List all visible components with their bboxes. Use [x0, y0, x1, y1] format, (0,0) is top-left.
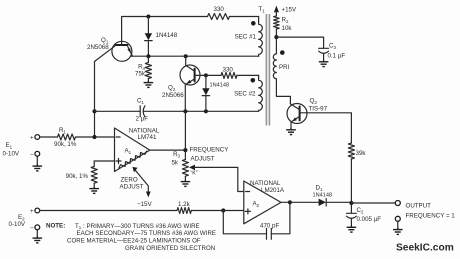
resistor 90k 1% (to ground) [66, 167, 98, 188]
wire A1 + input [94, 161, 114, 167]
svg-text:470 pF: 470 pF [260, 223, 279, 230]
svg-text:90k, 1%: 90k, 1% [66, 173, 89, 180]
op-amp A2 LM201A [244, 180, 285, 224]
svg-text:SeekIC.com: SeekIC.com [396, 243, 454, 254]
resistor 330 (secondary 1) [208, 6, 230, 20]
resistor 39k [348, 143, 366, 203]
resistor 330 (secondary 2) [206, 67, 259, 79]
svg-text:0-10V: 0-10V [9, 221, 26, 228]
svg-text:+15V: +15V [282, 7, 297, 14]
svg-text:−: − [30, 225, 34, 232]
svg-text:LM201A: LM201A [261, 187, 285, 194]
svg-text:2N5068: 2N5068 [87, 44, 109, 51]
svg-text:330: 330 [223, 67, 234, 74]
note text [46, 223, 216, 252]
svg-text:“K”: “K” [191, 171, 198, 177]
node R2/PRI junction [274, 35, 278, 39]
phase dot SEC1 [251, 21, 256, 26]
node A1 inverting input [92, 135, 96, 139]
node Q2 emitter on rail [183, 109, 187, 113]
diode D1 1N4148 [313, 185, 352, 207]
phase dot PRI [280, 50, 285, 55]
svg-text:1N4148: 1N4148 [156, 32, 178, 39]
output label [406, 203, 456, 220]
wire to C3 [276, 37, 323, 48]
node diode2 on rail [204, 109, 208, 113]
svg-text:OUTPUT: OUTPUT [406, 203, 432, 210]
svg-text:LM741: LM741 [138, 134, 157, 141]
svg-text:−15V: −15V [137, 201, 152, 208]
node A2 + input [221, 208, 225, 212]
winding SEC 1 [235, 17, 263, 57]
ground under C2 [347, 226, 357, 232]
svg-text:0-10V: 0-10V [3, 151, 20, 158]
svg-text:330: 330 [214, 6, 225, 13]
svg-text:PRI: PRI [279, 64, 290, 71]
wire bottom rail left [95, 110, 141, 112]
wire E2 to 1.2k [40, 210, 177, 212]
svg-text:+: + [30, 208, 34, 215]
svg-text:0.1 µF: 0.1 µF [328, 53, 346, 60]
ground under E1 [33, 165, 43, 171]
svg-text:0.005 µF: 0.005 µF [357, 216, 382, 223]
svg-text:−: − [30, 151, 34, 158]
node Q2 collector on emitter rail [184, 54, 188, 58]
capacitor C1 2uF [136, 98, 259, 123]
+15V supply arrow [274, 6, 297, 16]
terminal E2 - [30, 225, 40, 237]
svg-text:GRAIN ORIENTED SILECTRON: GRAIN ORIENTED SILECTRON [125, 245, 215, 252]
svg-text:2 µF: 2 µF [136, 116, 149, 123]
svg-text:39k: 39k [356, 150, 367, 157]
transistor Q2 2N5066 [162, 65, 206, 111]
winding PRI [273, 37, 290, 104]
transistor Q1 2N5068 [87, 17, 133, 62]
svg-text:NOTE:: NOTE: [46, 223, 65, 230]
op-amp A1 LM741 [115, 128, 160, 172]
terminal output - [395, 216, 400, 228]
wire to output terminal [351, 202, 395, 204]
ground under R4 [144, 81, 154, 87]
svg-text:1.2k: 1.2k [178, 201, 191, 208]
wire Q1 base drop [94, 62, 96, 138]
terminal E2 + [9, 208, 40, 228]
svg-text:ADJUST: ADJUST [120, 183, 144, 190]
svg-text:90k, 1%: 90k, 1% [54, 141, 77, 148]
wire rail to R3 node [184, 111, 186, 150]
resistor R1 90k 1% [40, 127, 115, 148]
terminal E1 + [3, 135, 40, 158]
svg-text:FREQUENCY = 1: FREQUENCY = 1 [406, 213, 456, 220]
ground under E2 [33, 237, 43, 243]
transformer T1 core [259, 6, 270, 126]
ground under C3 [319, 60, 329, 66]
node R4 [146, 54, 150, 58]
resistor R2 10k [274, 16, 293, 37]
svg-text:5k: 5k [171, 160, 178, 167]
wire A1 output [150, 149, 186, 151]
potentiometer zero adjust (on A1) [119, 151, 152, 208]
svg-text:1N4148: 1N4148 [313, 193, 333, 199]
phase dot SEC2 [251, 78, 256, 83]
potentiometer R3 5k frequency adjust [171, 147, 243, 192]
node A2 output [288, 200, 292, 204]
svg-text:ADJUST: ADJUST [191, 156, 215, 163]
svg-text:+: + [30, 135, 34, 142]
svg-text:1N4148: 1N4148 [210, 83, 230, 89]
diode 1N4148 (lower) [202, 75, 229, 111]
svg-text:EACH SECONDARY—75 TURNS #36 AW: EACH SECONDARY—75 TURNS #36 AWG WIRE [77, 230, 217, 237]
wire top rail [122, 16, 259, 18]
svg-text:SEC #1: SEC #1 [235, 34, 257, 41]
terminal output + [395, 201, 400, 206]
svg-text:10k: 10k [282, 25, 293, 32]
ground under 90k [89, 187, 99, 193]
ground under Q3 emitter [286, 128, 296, 134]
winding SEC 2 [234, 75, 262, 111]
svg-text:75k: 75k [135, 71, 146, 78]
ground under output terminal [393, 228, 403, 234]
resistor 1.2k [177, 201, 244, 214]
svg-text:2N5066: 2N5066 [162, 92, 184, 99]
node output/C2 [349, 201, 353, 205]
wire Q2 collector [185, 56, 187, 65]
svg-text:CORE MATERIAL—EE24-25 LAMINATI: CORE MATERIAL—EE24-25 LAMINATIONS OF [67, 238, 201, 245]
node C1 branch [92, 109, 96, 113]
capacitor C2 0.005uF [347, 203, 382, 226]
ground under R3 [181, 180, 191, 186]
diode 1N4148 (upper) [145, 17, 178, 57]
svg-text:FREQUENCY: FREQUENCY [190, 147, 229, 154]
svg-text:SEC #2: SEC #2 [234, 91, 256, 98]
resistor R4 75k [135, 56, 151, 81]
terminal E1 - [30, 151, 40, 164]
node Q2 base junction [204, 73, 208, 77]
node rail/diode junction [146, 15, 150, 19]
node A1 output / R3 [183, 148, 187, 152]
wire A2 output [281, 201, 319, 203]
wire emitter rail [132, 55, 259, 57]
svg-text:T1 : PRIMARY—300 TURNS #36 AWG: T1 : PRIMARY—300 TURNS #36 AWG WIRE [75, 223, 200, 230]
wire Q3 collector to 39k [307, 113, 351, 143]
svg-text:TIS-97: TIS-97 [309, 106, 328, 113]
transistor Q3 TIS-97 [287, 98, 328, 129]
capacitor 470pF feedback [223, 202, 290, 239]
capacitor C3 0.1uF [319, 43, 346, 61]
